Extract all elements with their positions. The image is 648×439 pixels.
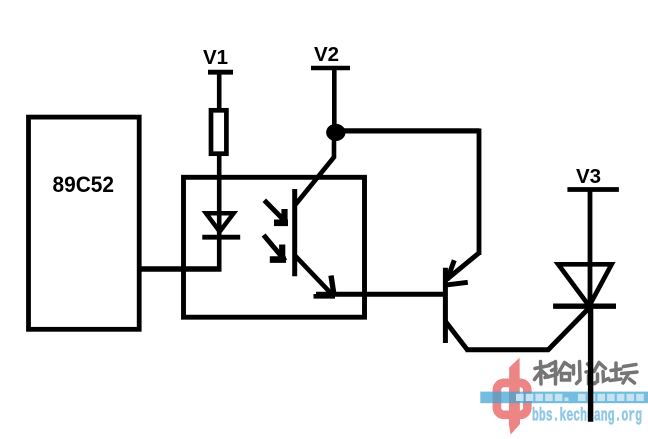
wire V3 to SCR anode <box>588 190 593 307</box>
light arrow 2 <box>264 235 286 261</box>
V1 supply bar <box>208 70 233 75</box>
svg-text:V2: V2 <box>314 43 339 66</box>
SCR gate diagonal <box>548 307 591 351</box>
V2 supply bar <box>311 66 350 71</box>
watermark title calligraphy char 4 <box>610 363 637 383</box>
junction node dot <box>326 124 345 141</box>
phototransistor Q1 emitter diagonal <box>295 255 333 295</box>
svg-text:V1: V1 <box>203 46 228 69</box>
wire dot to right <box>340 128 479 133</box>
resistor R1 <box>211 110 226 153</box>
watermark banner <box>480 392 648 404</box>
phototransistor Q1 emitter arrowhead <box>314 276 336 297</box>
transistor Q2 emitter diagonal <box>446 322 468 351</box>
wire 89C52 to LED <box>139 266 222 272</box>
wire Q1 emitter to Q2 base <box>316 292 446 297</box>
svg-text:bbs.kechuang.org: bbs.kechuang.org <box>532 407 642 427</box>
transistor Q2 collector diagonal <box>448 253 480 279</box>
wire V1 to R1 <box>217 72 222 111</box>
wire down to Q2 <box>477 129 482 256</box>
watermark banner slogan text (approximated dashes) <box>516 394 644 401</box>
watermark title calligraphy char 3 <box>586 363 609 384</box>
V3 supply bar <box>567 187 619 192</box>
SCR D2 cathode bar <box>553 304 616 309</box>
watermark title calligraphy char 2 <box>559 362 580 384</box>
phototransistor Q1 collector diagonal <box>296 157 335 205</box>
IC U1 box <box>29 117 140 329</box>
wire R1 to LED anode <box>217 154 222 239</box>
SCR D2 triangle <box>558 264 611 306</box>
LED D1 triangle <box>206 213 234 231</box>
wire LED cathode down <box>217 237 222 269</box>
wire Q2 emitter to SCR gate <box>466 347 550 352</box>
transistor Q2 collector arrowhead <box>447 260 468 285</box>
watermark title calligraphy char 1 <box>535 362 558 385</box>
optocoupler U2 box <box>184 177 365 317</box>
wire V2 down <box>332 68 337 131</box>
light arrow 1 <box>264 200 288 223</box>
LED D1 cathode bar <box>202 235 240 240</box>
phototransistor Q1 base bar <box>292 189 297 276</box>
svg-text:89C52: 89C52 <box>53 172 115 197</box>
wire SCR cathode down <box>588 306 593 422</box>
svg-text:V3: V3 <box>576 165 601 188</box>
wire dot to Q1 collector <box>332 129 337 158</box>
watermark logo vertical stroke <box>509 358 520 435</box>
watermark logo ring <box>497 383 527 415</box>
transistor Q2 base bar <box>443 268 448 343</box>
